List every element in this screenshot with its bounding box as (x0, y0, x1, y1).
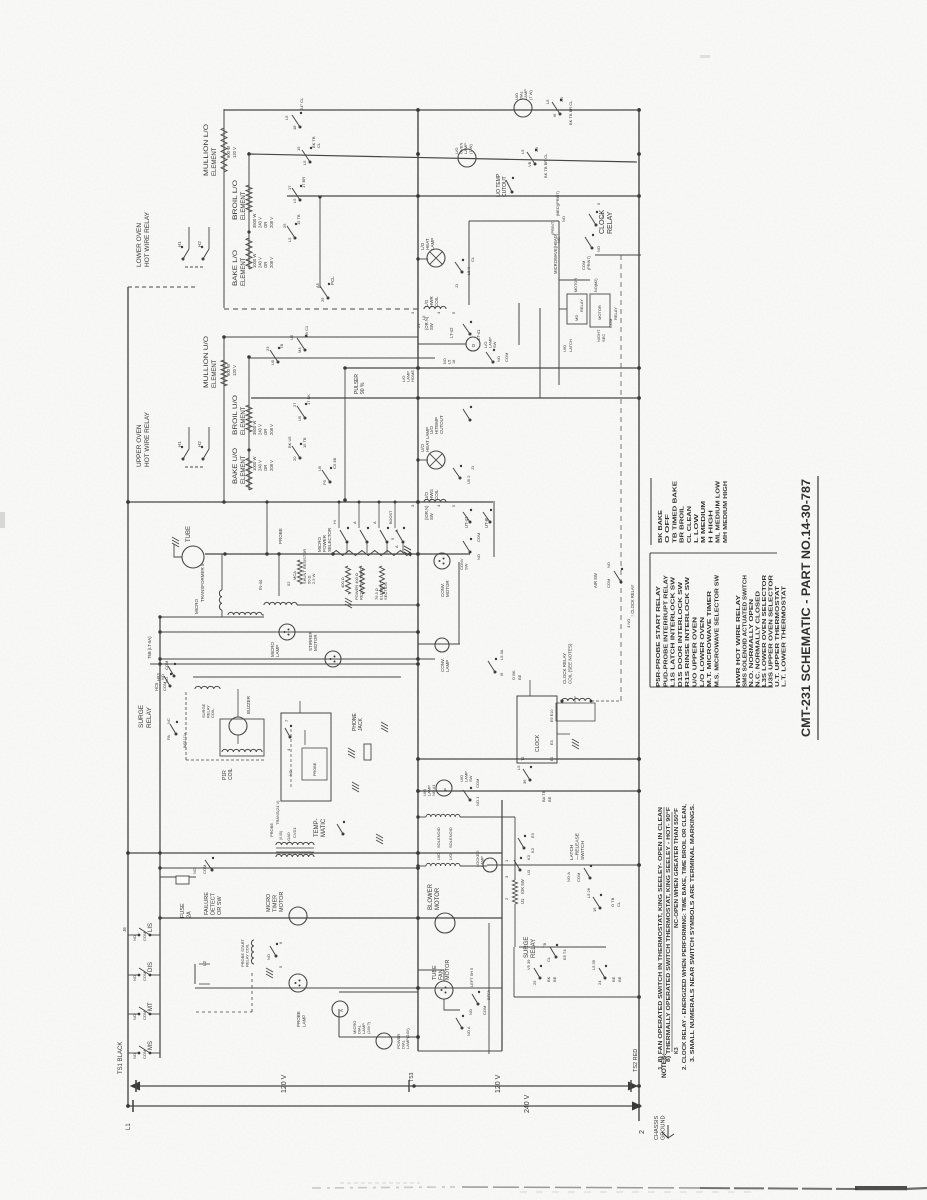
svg-text:NO: NO (468, 1009, 473, 1015)
svg-text:240 V: 240 V (258, 424, 263, 435)
svg-text:U/O UPPER OVEN: U/O UPPER OVEN (693, 616, 699, 687)
svg-text:TS1 BLACK: TS1 BLACK (118, 1042, 124, 1074)
wire latch line (487, 864, 641, 866)
coil micro transformer pri (219, 590, 222, 610)
svg-text:COM: COM (142, 1011, 147, 1020)
svg-text:MT: MT (148, 1002, 154, 1011)
svg-text:COIL: COIL (434, 489, 439, 500)
lamp L/O heat lamp (427, 249, 445, 267)
svg-text:H2: H2 (197, 241, 202, 247)
svg-text:COM: COM (476, 533, 481, 542)
wire bus 240V rail (128, 1105, 641, 1107)
junction dots mid bus (416, 366, 420, 370)
svg-text:ELEMENT: ELEMENT (241, 455, 247, 484)
coil U/O solenoid (426, 814, 460, 817)
svg-text:OR: OR (263, 222, 268, 228)
resistor power resistor row2 (360, 566, 365, 594)
svg-text:NO.#1: NO.#1 (431, 784, 436, 796)
svg-text:L.T. LOWER THERMOSTAT: L.T. LOWER THERMOSTAT (782, 586, 788, 687)
svg-text:SW: SW (464, 563, 469, 570)
relay contacts upper oven HWR (185, 466, 205, 468)
resistor shunt (298, 560, 303, 584)
svg-text:BAKE L/O: BAKE L/O (233, 250, 239, 286)
switch bake PCL (294, 237, 297, 240)
ground probe (376, 840, 383, 844)
svg-text:COM: COM (164, 661, 169, 670)
svg-text:208 V: 208 V (269, 424, 274, 435)
svg-text:DETECT: DETECT (211, 892, 217, 915)
legend rule vertical (650, 552, 777, 554)
svg-text:R1S RINSE INTERLOCK SW: R1S RINSE INTERLOCK SW (685, 577, 691, 687)
switch LO lamp 2B (534, 163, 537, 166)
wire heat lamp loop side (468, 221, 470, 305)
svg-text:SW: SW (429, 323, 434, 330)
switch air sw (620, 581, 623, 584)
svg-text:PROBE: PROBE (296, 1011, 301, 1027)
switch surge aux (175, 733, 178, 736)
svg-text:2.5 W: 2.5 W (311, 573, 316, 584)
wire clock line (418, 758, 641, 760)
svg-text:2B: 2B (559, 97, 564, 102)
switch bank micro power selector (346, 542, 348, 553)
svg-text:H1: H1 (177, 241, 182, 247)
wire heat lamp loop top (469, 220, 559, 222)
svg-text:BK U5: BK U5 (287, 436, 292, 448)
switch PCL2 (327, 297, 330, 300)
phone jack symbol (364, 744, 371, 760)
svg-text:O TB: O TB (610, 897, 615, 907)
wire broil switch wire (319, 197, 321, 288)
wire dial lamp link (338, 1009, 340, 1037)
wire clock links (557, 733, 570, 735)
wire secondary to bus (297, 604, 418, 606)
svg-text:24: 24 (597, 980, 602, 985)
svg-text:L LOW: L LOW (694, 512, 700, 543)
switch hc5 (169, 685, 172, 688)
svg-text:U3: U3 (526, 869, 531, 875)
svg-text:240 V: 240 V (258, 257, 263, 268)
svg-text:20: 20 (292, 456, 297, 461)
svg-text:RELAY: RELAY (607, 211, 614, 234)
wire switch riser 2 (539, 308, 541, 398)
svg-text:BROIL L/O: BROIL L/O (233, 180, 239, 220)
legend rule top (649, 553, 651, 687)
resistor broil UO element (246, 405, 252, 432)
svg-text:BK TB BR CL: BK TB BR CL (543, 153, 548, 178)
switch UO 23 (277, 361, 280, 364)
coil probe start relay coil (251, 940, 254, 964)
svg-text:27: 27 (292, 402, 297, 407)
fuse circle (182, 546, 204, 568)
coil micro transformer sec1 (228, 612, 262, 615)
switch tempmatic (289, 736, 292, 739)
junction dots top bus (126, 851, 130, 855)
wire coil to dashed boundary (591, 700, 621, 702)
wire micro line (205, 553, 470, 555)
svg-text:LAMP: LAMP (445, 660, 450, 672)
svg-text:15 TB: 15 TB (296, 214, 301, 225)
ground phone jack (381, 728, 388, 732)
svg-text:SW: SW (429, 513, 434, 520)
wire solenoid to locked lamp (460, 865, 487, 867)
svg-text:COM: COM (606, 579, 611, 588)
wire bus left lower (501, 800, 503, 1051)
dashed relay linkage (251, 972, 253, 1012)
svg-text:NO: NO (266, 954, 271, 960)
svg-text:COIL: COIL (210, 708, 215, 718)
svg-text:CL: CL (546, 956, 551, 962)
svg-text:NO: NO (132, 1014, 137, 1020)
switch LO lamp sw (492, 361, 495, 364)
wire microwave head line (558, 221, 560, 385)
svg-text:COM: COM (581, 261, 586, 270)
svg-text:TUBE: TUBE (432, 965, 438, 980)
svg-text:RELAY: RELAY (579, 299, 584, 312)
svg-text:L5: L5 (516, 765, 521, 770)
motor conv motor (434, 553, 450, 569)
svg-text:COM: COM (475, 779, 480, 788)
svg-text:MATIC: MATIC (321, 818, 327, 837)
svg-text:OR SW: OR SW (217, 896, 223, 915)
svg-text:MCA: MCA (292, 571, 297, 580)
svg-text:2A: 2A (187, 911, 193, 918)
wire pulser vertical (344, 368, 346, 500)
dashed tempmatic internal (290, 728, 292, 787)
svg-text:COM: COM (142, 932, 147, 941)
svg-text:LATCH: LATCH (569, 844, 575, 860)
svg-text:240 V: 240 V (524, 1094, 531, 1113)
svg-text:3. SMALL NUMERALS NEAR SWITCH: 3. SMALL NUMERALS NEAR SWITCH SYMBOLS AR… (690, 803, 696, 1062)
svg-text:BE: BE (552, 976, 557, 982)
svg-text:15: 15 (296, 146, 301, 151)
wire oven section dashed boundary (224, 308, 418, 310)
schematic page (rotated 90deg scan) (118, 89, 818, 1140)
svg-text:(0.05): (0.05) (279, 831, 283, 840)
svg-text:IN-44: IN-44 (258, 579, 263, 590)
svg-text:COM: COM (142, 972, 147, 981)
wire element feeder 2 (249, 154, 637, 162)
svg-text:U3S UPPER OVEN SELECTOR: U3S UPPER OVEN SELECTOR (769, 574, 775, 687)
svg-text:COM: COM (142, 1050, 147, 1059)
switch 36 L5 (529, 779, 532, 782)
svg-text:LAMP(24V): LAMP(24V) (405, 1028, 410, 1049)
switch probe relay (275, 955, 278, 958)
svg-text:2. CLOCK RELAY - ENERGIZED WHE: 2. CLOCK RELAY - ENERGIZED WHEN PERFORMI… (682, 803, 688, 1070)
switch UT42 (469, 521, 472, 524)
lamp conv lamp (435, 638, 449, 652)
svg-text:T2: T2 (521, 757, 525, 761)
svg-text:(7 W): (7 W) (528, 90, 533, 100)
svg-text:AIR SW: AIR SW (593, 573, 598, 588)
scan speck top right (700, 55, 710, 58)
wire conv motor link (458, 562, 460, 644)
motor micro timer (289, 907, 307, 925)
svg-text:L1: L1 (126, 1123, 132, 1130)
wire upper oven feeder drop (223, 337, 225, 502)
wire UO broil bake element line (248, 357, 250, 490)
svg-text:P5: P5 (322, 479, 327, 485)
svg-text:L1S LATCH INTERLOCK SW: L1S LATCH INTERLOCK SW (671, 577, 677, 687)
svg-text:NO: NO (132, 975, 137, 981)
svg-text:U5: U5 (297, 415, 302, 421)
svg-text:HWR HOT WIRE RELAY: HWR HOT WIRE RELAY (736, 594, 742, 687)
svg-text:SURGE: SURGE (138, 704, 145, 728)
svg-text:K3: K3 (530, 847, 535, 853)
switch clock relay NO NC (591, 247, 594, 250)
resistor element section (380, 566, 385, 594)
svg-text:A: A (394, 545, 399, 548)
svg-text:400 Ω: 400 Ω (340, 577, 345, 588)
svg-text:COM: COM (576, 873, 581, 882)
svg-text:NO: NO (496, 356, 501, 362)
svg-text:TB: TB (279, 344, 284, 349)
svg-text:NC: NC (600, 212, 605, 218)
svg-text:BE: BE (611, 976, 616, 982)
wire LO broil bake element line (248, 152, 250, 269)
wire element feeder 3 (287, 195, 637, 197)
switch LO temp cutout (511, 191, 514, 194)
svg-text:SECTION: SECTION (383, 582, 388, 600)
switch UO 27 BR (304, 417, 307, 420)
svg-text:2B: 2B (534, 147, 539, 152)
svg-text:NC: NC (192, 868, 197, 874)
ground selector (404, 552, 411, 556)
wire main bus L1 top (127, 287, 129, 1106)
svg-text:NC: NC (556, 237, 561, 243)
svg-text:HOME: HOME (410, 370, 415, 382)
svg-text:NC: NC (288, 770, 293, 776)
svg-text:BR BROIL: BR BROIL (680, 505, 686, 543)
wire surge relay internal (519, 946, 606, 948)
svg-text:(PRINT): (PRINT) (587, 255, 591, 270)
switch surge k3 (519, 869, 522, 872)
svg-text:U5: U5 (289, 334, 294, 340)
svg-text:C5 3B: C5 3B (332, 458, 337, 469)
terminal TS3 tick (408, 1080, 410, 1092)
switch hs3 (173, 675, 176, 678)
motor probe motor (289, 974, 307, 992)
svg-text:ML MEDIUM LOW: ML MEDIUM LOW (716, 480, 722, 543)
svg-text:CMT-231 SCHEMATIC - PART N: CMT-231 SCHEMATIC - PART NO.14-30-787 (801, 479, 813, 737)
svg-text:HOT WIRE RELAY: HOT WIRE RELAY (144, 211, 151, 267)
svg-text:NO(M2): NO(M2) (594, 278, 598, 292)
svg-text:NO: NO (132, 935, 137, 941)
switch L5 26 (599, 907, 602, 910)
wire timer motor line (160, 917, 502, 919)
svg-text:ELEMENT: ELEMENT (241, 191, 247, 220)
svg-text:CL CLEAN: CL CLEAN (687, 506, 693, 543)
svg-text:CL: CL (470, 256, 475, 262)
svg-text:120 V: 120 V (495, 1074, 502, 1093)
svg-text:K3: K3 (674, 1047, 680, 1054)
wire buzzer links (237, 735, 239, 744)
svg-text:16: 16 (592, 907, 597, 912)
switch BK TB CL (309, 161, 312, 164)
title underline (817, 476, 819, 740)
svg-text:COM: COM (504, 353, 509, 362)
svg-text:LAMP: LAMP (275, 645, 280, 657)
resistor mullion UO element (221, 360, 227, 386)
svg-text:TS2 RED: TS2 RED (633, 1049, 639, 1072)
coil micro transformer sec2 (264, 602, 297, 605)
wire uo lamp line (418, 790, 641, 792)
wire dial lamp stub (339, 1036, 418, 1038)
switch UO lamp sw (469, 799, 472, 802)
svg-text:1. 8) FAN OPERATED SWITCH IN: 1. 8) FAN OPERATED SWITCH IN THERMOSTAT,… (658, 807, 664, 1070)
svg-text:PROBE: PROBE (313, 762, 317, 776)
svg-text:MULLION U/O: MULLION U/O (204, 336, 210, 388)
svg-text:MICRO: MICRO (266, 893, 272, 912)
svg-text:L/O LOWER OVEN: L/O LOWER OVEN (700, 616, 706, 687)
svg-text:SMS SOLENOID ACTUATED SWITC: SMS SOLENOID ACTUATED SWITCH (743, 575, 749, 687)
resistor broil LO element (246, 185, 252, 212)
svg-text:J6: J6 (122, 927, 127, 932)
svg-text:MULLION L/O: MULLION L/O (204, 124, 210, 176)
svg-text:COM: COM (202, 865, 207, 874)
wire surge box left edge (513, 947, 515, 997)
svg-text:L5: L5 (447, 360, 451, 364)
resistor U1 10K 5W (513, 880, 518, 904)
switch L5 II CL (461, 271, 464, 274)
ground probe relay (266, 974, 273, 978)
svg-text:SOLENOID: SOLENOID (436, 827, 441, 848)
svg-text:E3: E3 (530, 832, 535, 838)
svg-text:U1: U1 (520, 898, 525, 904)
wire switch riser 1 (518, 303, 520, 345)
svg-text:NO.1: NO.1 (475, 796, 480, 806)
svg-text:BA TB: BA TB (541, 790, 546, 802)
switch LT-41 (469, 333, 472, 336)
svg-text:BE: BE (617, 976, 622, 982)
svg-text:NO·A: NO·A (566, 872, 571, 882)
svg-text:PA: PA (166, 735, 171, 740)
resistor selector element (333, 551, 410, 556)
svg-text:E1: E1 (550, 756, 554, 761)
switch LIS (128, 934, 138, 936)
svg-text:LIS: LIS (148, 923, 154, 932)
svg-text:MS: MS (148, 1041, 154, 1050)
svg-text:(MED)(PRINT): (MED)(PRINT) (556, 190, 560, 216)
resistor power resistor 400 (346, 566, 351, 594)
wire bus 120V rail (133, 1085, 637, 1087)
wire lower oven feeder drop (223, 109, 225, 308)
svg-text:SELECTOR: SELECTOR (327, 527, 332, 552)
svg-text:↑ CLOCK RELAY: ↑ CLOCK RELAY (630, 585, 635, 617)
wire UO heat lamp feed (418, 459, 428, 461)
svg-text:BTFA: BTFA (486, 990, 491, 1000)
coil P1R coil (222, 749, 262, 752)
svg-text:L5 26: L5 26 (586, 887, 591, 898)
svg-text:U5: U5 (270, 359, 275, 365)
svg-text:LEFT 5H 5: LEFT 5H 5 (469, 967, 474, 987)
svg-text:FAILURE: FAILURE (204, 892, 210, 915)
svg-text:L5 II: L5 II (466, 267, 471, 275)
svg-text:36: 36 (522, 779, 527, 784)
buzzer circle (229, 717, 247, 735)
svg-text:ELEMENT: ELEMENT (241, 257, 247, 286)
svg-text:25: 25 (532, 980, 537, 985)
junction dots bottom bus (637, 108, 641, 112)
wire lamp links (418, 357, 435, 359)
wire lower-oven boundary dashed (128, 286, 196, 288)
svg-text:4 NO: 4 NO (626, 619, 631, 628)
junction dots upper branch (158, 615, 161, 618)
svg-text:NC: NC (166, 718, 171, 724)
svg-text:L5: L5 (284, 115, 289, 120)
switch L5 3A (494, 671, 497, 674)
svg-text:RELAY COIL: RELAY COIL (245, 943, 250, 967)
svg-text:SWITCH: SWITCH (580, 841, 586, 860)
svg-text:18: 18 (292, 125, 297, 130)
junction dots transformer line (223, 552, 226, 555)
wire conv lamp stub (418, 643, 460, 645)
wire tempmatic section line (193, 676, 401, 678)
wire box edge (418, 1050, 502, 1052)
svg-text:16: 16 (452, 360, 456, 364)
svg-text:L/O: L/O (448, 854, 453, 860)
box temp-matic control (281, 713, 331, 801)
svg-text:17 BR: 17 BR (301, 177, 306, 188)
svg-text:U.T. UPPER THERMOSTAT: U.T. UPPER THERMOSTAT (775, 586, 781, 687)
svg-text:RESISTOR 500 Ω: RESISTOR 500 Ω (359, 568, 364, 600)
svg-text:L5: L5 (520, 149, 525, 154)
switch row 25 V5 39 (539, 977, 542, 980)
lamp micro dial lamp (332, 1001, 348, 1017)
svg-text:TIMER: TIMER (273, 895, 279, 912)
svg-text:PCL: PCL (330, 276, 335, 285)
lamp U/O heat lamp (427, 451, 445, 469)
svg-text:U/O: U/O (436, 853, 441, 860)
svg-text:(PRINT): (PRINT) (550, 220, 555, 235)
svg-text:CL: CL (616, 901, 621, 907)
svg-text:900 W: 900 W (226, 146, 231, 158)
svg-text:17: 17 (287, 185, 292, 190)
wire shunt drop (278, 554, 280, 596)
svg-text:COM: COM (482, 1006, 487, 1015)
svg-text:TUBE: TUBE (186, 526, 192, 542)
wire surge line (150, 663, 418, 665)
wire element feeder 1 (224, 109, 637, 111)
svg-text:BUZZER: BUZZER (246, 695, 251, 714)
svg-text:O OFF: O OFF (665, 513, 671, 543)
svg-text:NC-OPEN WHEN GREATER THAN 550°: NC-OPEN WHEN GREATER THAN 550°F (674, 808, 680, 928)
switch L5 24 CL (299, 126, 302, 129)
svg-text:CL: CL (316, 142, 321, 148)
svg-text:L5: L5 (302, 160, 307, 165)
motor blower (435, 913, 455, 933)
svg-text:23: 23 (265, 346, 270, 351)
svg-text:8) THERMALLY OPERATED SWITCH T: 8) THERMALLY OPERATED SWITCH THERMOSTAT,… (666, 807, 672, 1062)
svg-text:OR: OR (263, 262, 268, 268)
svg-text:BK TB BR CL: BK TB BR CL (568, 100, 573, 125)
wire neutral mid bus (417, 108, 419, 1051)
svg-text:2B C1: 2B C1 (304, 325, 309, 337)
switch tube fan2 (461, 1027, 464, 1030)
svg-text:COIL (SEE NOTES): COIL (SEE NOTES) (568, 643, 573, 684)
svg-text:NO: NO (443, 358, 447, 364)
svg-text:CUTOUT: CUTOUT (502, 176, 508, 197)
wire surge relay bottom (514, 996, 641, 998)
coil U/O HWG coil (424, 499, 446, 502)
svg-text:2: 2 (639, 1130, 646, 1134)
switch row CL TB (555, 956, 558, 959)
svg-text:BE: BE (547, 796, 552, 802)
svg-text:MH MEDIUM HIGH: MH MEDIUM HIGH (723, 481, 729, 543)
svg-text:NO: NO (476, 554, 481, 560)
wire tempmatic links (299, 701, 301, 713)
svg-text:U5 2: U5 2 (466, 475, 471, 484)
box P1R relay (220, 719, 264, 756)
